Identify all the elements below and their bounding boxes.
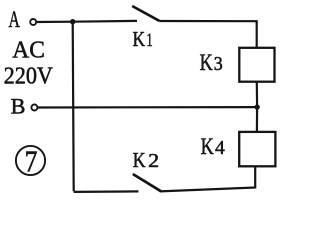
- wire top left segment to switch K1: [73, 20, 137, 23]
- svg-text:A: A: [9, 7, 21, 32]
- wire top right segment from switch K1 to corner: [159, 21, 256, 48]
- terminal B: [31, 105, 37, 111]
- wire junction to K4 top stem: [256, 107, 258, 132]
- junction dot between K3 and K4: [254, 104, 259, 109]
- wire K3 bottom stem to junction: [256, 82, 259, 107]
- svg-text:4: 4: [215, 137, 225, 159]
- wire bottom left segment from switch K2 to bus: [74, 190, 139, 193]
- svg-text:AC: AC: [12, 36, 45, 63]
- svg-text:2: 2: [148, 151, 159, 172]
- svg-text:K: K: [133, 27, 146, 51]
- load K3 box: [239, 48, 274, 82]
- svg-text:B: B: [11, 93, 26, 118]
- junction dot top of left bus: [70, 19, 75, 24]
- wire from terminal B to junction: [38, 106, 258, 109]
- switch K2 blade: [133, 174, 161, 191]
- svg-text:220V: 220V: [4, 63, 54, 90]
- figure number 7 circle: [16, 146, 45, 175]
- svg-text:7: 7: [25, 144, 38, 178]
- svg-text:K: K: [200, 50, 213, 75]
- terminal A: [30, 19, 36, 25]
- svg-text:3: 3: [214, 53, 223, 75]
- load K4 box: [239, 132, 275, 166]
- svg-text:K: K: [201, 134, 214, 159]
- switch K1 blade: [132, 6, 159, 21]
- wire left vertical bus: [73, 22, 74, 192]
- wire from terminal A to junction: [36, 21, 73, 23]
- svg-text:1: 1: [146, 30, 152, 51]
- svg-text:K: K: [133, 148, 146, 172]
- wire K4 bottom stem and bottom right segment to switch K2: [160, 166, 255, 191]
